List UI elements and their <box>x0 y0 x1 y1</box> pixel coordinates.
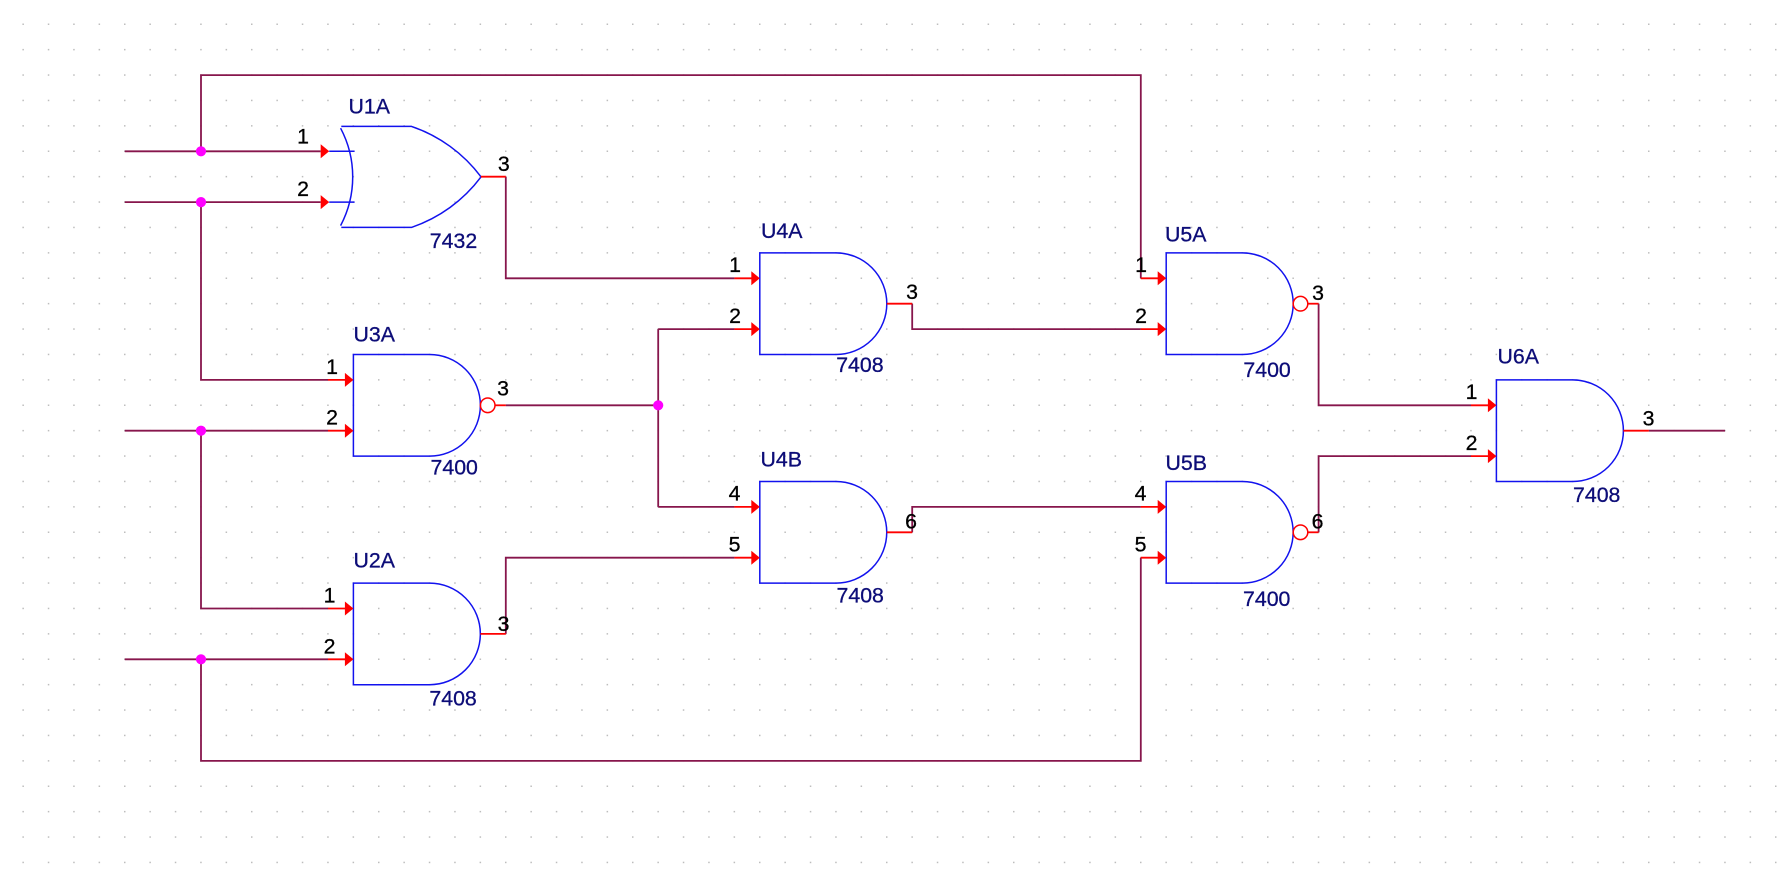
U1A pin 2 arrow <box>321 195 330 209</box>
svg-text:1: 1 <box>1466 380 1478 404</box>
wire net C: down from junction to U2A pin 1 row <box>201 431 328 609</box>
svg-text:6: 6 <box>905 510 917 534</box>
svg-text:7408: 7408 <box>429 687 476 711</box>
svg-text:3: 3 <box>497 377 509 401</box>
U4A pin 1 lead <box>734 277 752 279</box>
U2A pin 2 lead <box>328 658 346 660</box>
wire U4A output to U5A pin 2 <box>912 304 1141 329</box>
U4B pin 5 lead <box>734 557 752 559</box>
and-gate U4B body (7408) <box>760 482 887 584</box>
wire net D: down from junction, along bottom, up to U5B pin 5 <box>201 558 1141 761</box>
wire net A: up from junction, along top, down to U5A pin 1 <box>201 75 1141 278</box>
U6A output lead pin 3 <box>1623 430 1648 432</box>
nand-gate U5B body (7400) <box>1166 482 1308 584</box>
svg-text:U4A: U4A <box>761 219 803 243</box>
svg-text:7432: 7432 <box>430 229 477 253</box>
wire input B horizontal <box>125 201 321 203</box>
U6A pin 1 lead <box>1471 404 1489 406</box>
wire mid vertical U4A.2-U4B.4 <box>657 329 659 507</box>
svg-text:1: 1 <box>324 584 336 608</box>
svg-text:U6A: U6A <box>1498 345 1540 369</box>
svg-text:3: 3 <box>906 280 918 304</box>
wire input A horizontal <box>125 150 321 152</box>
U1A output lead pin 3 <box>481 176 506 178</box>
wire U5A output to U6A pin 1 <box>1319 304 1471 406</box>
U5B pin 5 lead <box>1141 557 1159 559</box>
svg-text:7408: 7408 <box>837 584 884 608</box>
U3A pin 2 lead <box>328 430 346 432</box>
U3A pin 1 lead <box>328 379 346 381</box>
svg-text:7408: 7408 <box>1573 483 1620 507</box>
U3A output lead pin 3 <box>495 404 506 406</box>
U1A pin 1 arrow <box>321 144 330 158</box>
svg-text:1: 1 <box>729 253 741 277</box>
svg-text:2: 2 <box>729 304 741 328</box>
svg-text:4: 4 <box>1135 482 1147 506</box>
U2A pin 1 lead <box>328 608 346 610</box>
U5B pin 4 lead <box>1141 506 1159 508</box>
U4B output lead pin 6 <box>887 531 912 533</box>
svg-text:2: 2 <box>1466 431 1478 455</box>
svg-text:3: 3 <box>498 612 510 636</box>
wire U5B output to U6A pin 2 <box>1319 456 1471 532</box>
wire U6A output <box>1649 430 1725 432</box>
svg-text:U4B: U4B <box>761 448 802 472</box>
junction node B <box>196 197 206 207</box>
or-gate U1A body (7432) <box>329 126 481 227</box>
svg-text:7400: 7400 <box>1243 587 1291 611</box>
wire net B: down from junction to U3A pin 1 row <box>201 202 328 380</box>
nand-gate U5A body (7400) <box>1166 253 1308 355</box>
U2A output lead pin 3 <box>480 633 505 635</box>
wire U4B output to U5B pin 4 <box>912 507 1141 532</box>
svg-text:7400: 7400 <box>431 455 479 479</box>
wire input C horizontal <box>125 430 328 432</box>
and-gate U2A body (7408) <box>353 583 480 685</box>
svg-text:U5B: U5B <box>1166 451 1207 475</box>
U4B pin 4 lead <box>734 506 752 508</box>
junction node A <box>196 146 206 156</box>
svg-text:5: 5 <box>729 533 741 557</box>
wire input D horizontal <box>125 658 328 660</box>
wire mid to U4B pin 4 <box>658 506 734 508</box>
wire mid to U4A pin 2 <box>658 328 734 330</box>
U6A pin 2 lead <box>1471 455 1489 457</box>
U4A output lead pin 3 <box>887 303 912 305</box>
U4A pin 2 lead <box>734 328 752 330</box>
U5B output lead pin 6 <box>1308 531 1319 533</box>
svg-text:5: 5 <box>1135 533 1147 557</box>
U5A pin 2 lead <box>1141 328 1159 330</box>
svg-text:4: 4 <box>729 482 741 506</box>
junction node mid <box>653 400 663 410</box>
and-gate U4A body (7408) <box>760 253 887 355</box>
svg-text:7408: 7408 <box>836 353 883 377</box>
svg-text:U1A: U1A <box>349 95 391 119</box>
wire U1A output to U4A pin 1 <box>506 177 735 279</box>
U5A output lead pin 3 <box>1308 303 1319 305</box>
svg-text:3: 3 <box>1643 407 1655 431</box>
svg-text:U3A: U3A <box>354 323 396 347</box>
svg-text:1: 1 <box>1135 253 1147 277</box>
junction node D <box>196 654 206 664</box>
svg-text:U2A: U2A <box>354 549 396 573</box>
svg-text:6: 6 <box>1312 510 1324 534</box>
junction node C <box>196 426 206 436</box>
svg-text:U5A: U5A <box>1165 223 1207 247</box>
U5A pin 1 lead <box>1141 277 1159 279</box>
svg-text:7400: 7400 <box>1243 358 1291 382</box>
svg-text:2: 2 <box>324 634 336 658</box>
svg-text:2: 2 <box>297 177 309 201</box>
svg-text:1: 1 <box>326 355 338 379</box>
wire U3A output to mid junction <box>506 404 658 406</box>
svg-text:3: 3 <box>1312 281 1324 305</box>
svg-text:2: 2 <box>326 406 338 430</box>
wire U2A output to U4B pin 5 <box>506 558 735 634</box>
svg-text:3: 3 <box>498 152 510 176</box>
nand-gate U3A body (7400) <box>353 355 495 457</box>
svg-text:2: 2 <box>1135 304 1147 328</box>
and-gate U6A body (7408) <box>1496 380 1623 482</box>
svg-text:1: 1 <box>297 125 309 149</box>
